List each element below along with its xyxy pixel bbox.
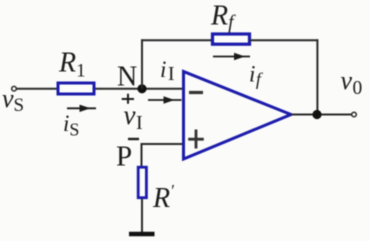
current arrow iS <box>67 105 96 112</box>
resistor R1 <box>58 83 94 94</box>
minus sign inside op-amp <box>189 91 203 94</box>
current arrow iI <box>148 96 182 103</box>
plus polarity of vI <box>122 94 134 104</box>
feedback right vertical wire <box>316 39 318 115</box>
node N junction dot <box>137 84 146 93</box>
op-amp U1 <box>184 72 292 160</box>
wire P to op-amp non-inverting input <box>142 144 184 167</box>
plus sign inside op-amp <box>188 130 204 149</box>
resistor Rf <box>213 34 250 44</box>
input terminal vS <box>12 86 17 91</box>
output junction dot <box>312 110 321 119</box>
feedback top wire left segment <box>141 39 212 41</box>
output terminal <box>352 112 357 117</box>
wire input terminal to R1 <box>17 88 57 90</box>
minus polarity of vI <box>128 138 139 140</box>
wire R1 to op-amp inverting input <box>96 88 184 90</box>
output wire <box>291 114 352 116</box>
ground <box>129 232 155 236</box>
svg-text:N: N <box>117 62 137 93</box>
current arrow if <box>213 53 250 60</box>
svg-text:P: P <box>116 141 132 173</box>
feedback top wire right segment <box>250 39 318 41</box>
wire R' to ground <box>141 199 143 233</box>
resistor R' <box>138 167 146 198</box>
wire node N up to feedback loop <box>141 39 143 89</box>
